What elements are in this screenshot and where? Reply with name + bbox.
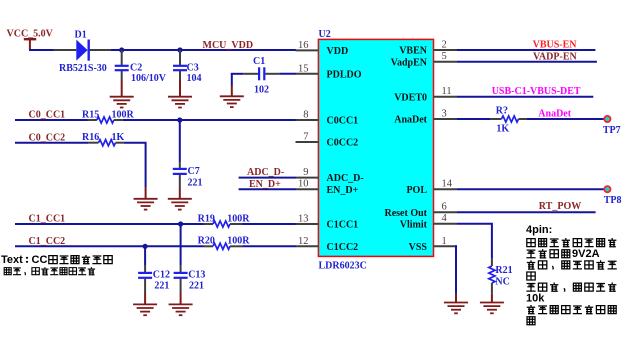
- svg-text:MCU_VDD: MCU_VDD: [203, 40, 254, 51]
- svg-text:C1_CC1: C1_CC1: [29, 214, 66, 225]
- U2 pin 2 VBEN: [399, 40, 457, 57]
- svg-text:Vlimit: Vlimit: [400, 219, 428, 230]
- svg-text:R21: R21: [495, 265, 512, 276]
- svg-text:VDD: VDD: [327, 46, 349, 57]
- U2 pin 6 Reset Out: [385, 202, 458, 219]
- svg-text:100R: 100R: [227, 213, 250, 224]
- wire C0_CC2: [15, 142, 88, 144]
- wire C1 left: [231, 73, 244, 75]
- svg-text:C2: C2: [130, 63, 142, 74]
- U2 pin 16 VDD: [296, 40, 349, 57]
- wire C1_CC2: [15, 245, 204, 247]
- svg-text:EN_D+: EN_D+: [327, 185, 359, 196]
- svg-text:RT_POW: RT_POW: [539, 201, 581, 212]
- U2 pin 1 VSS: [409, 236, 457, 253]
- svg-text:R19: R19: [198, 213, 215, 224]
- U2 pin 9 ADC_D-: [296, 167, 364, 184]
- svg-text:LDR6023C: LDR6023C: [319, 261, 367, 272]
- capacitor C7 221: [173, 120, 203, 199]
- svg-text:Reset Out: Reset Out: [385, 208, 428, 219]
- wire R15 to pin 8: [123, 119, 296, 121]
- svg-text:CC: CC: [32, 254, 48, 266]
- ground under C13: [169, 304, 193, 315]
- svg-text:C0_CC2: C0_CC2: [29, 132, 66, 143]
- test point TP8: [604, 186, 622, 206]
- svg-text:2: 2: [442, 40, 447, 51]
- wire C1 to pin 15: [279, 73, 296, 75]
- svg-text:VadpEN: VadpEN: [391, 57, 428, 68]
- svg-text:C12: C12: [153, 269, 170, 280]
- svg-text:USB-C1-VBUS-DET: USB-C1-VBUS-DET: [492, 86, 581, 97]
- svg-text:C3: C3: [187, 63, 199, 74]
- svg-text:R16: R16: [82, 132, 99, 143]
- svg-text:C1_CC2: C1_CC2: [29, 236, 66, 247]
- svg-text:R15: R15: [82, 109, 99, 120]
- op-amp / IC U2 LDR6023C body: [318, 29, 433, 272]
- svg-text:R20: R20: [198, 236, 215, 247]
- svg-text:15: 15: [298, 63, 309, 74]
- svg-text:221: 221: [188, 177, 203, 188]
- U2 pin 5 VadpEN: [391, 51, 457, 68]
- junction at C7: [177, 117, 182, 122]
- svg-text:13: 13: [298, 214, 309, 225]
- resistor R19 100R: [198, 213, 251, 227]
- ground under R16 riser: [134, 199, 158, 210]
- svg-text:221: 221: [154, 281, 169, 292]
- U2 pin 14 POL: [406, 179, 457, 196]
- text note left line 2: [4, 267, 95, 275]
- svg-text:8: 8: [303, 110, 308, 121]
- text note left: Text: CC series resistor note line 1: [1, 254, 112, 266]
- svg-text:C0CC1: C0CC1: [327, 116, 359, 127]
- svg-text:TP8: TP8: [604, 195, 622, 206]
- svg-text:NC: NC: [495, 277, 509, 288]
- wire C0_CC1: [15, 119, 88, 121]
- svg-text:TP7: TP7: [603, 125, 621, 136]
- svg-text:D1: D1: [75, 29, 87, 40]
- capacitor C2 106/10V: [115, 50, 167, 97]
- svg-text:4: 4: [442, 213, 448, 224]
- wire R20 to pin 12: [243, 245, 297, 247]
- ground under C7: [168, 199, 192, 210]
- svg-text:C7: C7: [188, 166, 200, 177]
- svg-text:16: 16: [298, 40, 309, 51]
- svg-text:100R: 100R: [227, 236, 250, 247]
- wire VCC to D1 anode: [29, 49, 54, 51]
- ground under C3: [168, 97, 192, 108]
- svg-text:AnaDet: AnaDet: [394, 115, 427, 126]
- svg-text:EN_D+: EN_D+: [249, 179, 281, 190]
- svg-text:102: 102: [254, 84, 269, 95]
- svg-text:ADC_D-: ADC_D-: [327, 173, 364, 184]
- U2 pin 12 C1CC2: [296, 236, 359, 253]
- svg-text:PDLDO: PDLDO: [327, 69, 362, 80]
- wire VSS pin 1 to ground: [456, 246, 457, 293]
- U2 pin 8 C0CC1: [296, 110, 359, 127]
- svg-text:14: 14: [442, 179, 453, 190]
- svg-text:U2: U2: [319, 29, 331, 40]
- svg-text:POL: POL: [406, 185, 427, 196]
- svg-text:C0_CC1: C0_CC1: [29, 110, 66, 121]
- svg-text:3: 3: [442, 109, 447, 120]
- svg-text:R?: R?: [496, 106, 508, 117]
- ground under VSS: [444, 303, 468, 314]
- wire Vlimit pin 4 to R21: [457, 224, 492, 259]
- capacitor C13 221: [174, 224, 206, 304]
- U2 pin 15 PDLDO: [296, 63, 362, 80]
- svg-text:C1CC1: C1CC1: [327, 220, 359, 231]
- svg-text:AnaDet: AnaDet: [538, 108, 571, 119]
- svg-text:4pin:: 4pin:: [526, 224, 552, 236]
- wire ADC_D- to pin 9: [239, 177, 296, 179]
- wire C1_CC1: [15, 223, 204, 225]
- svg-text:5: 5: [442, 51, 447, 62]
- svg-text:10: 10: [298, 179, 309, 190]
- text note right: 4pin power-limit note: [526, 224, 617, 325]
- svg-text:VADP-EN: VADP-EN: [533, 51, 577, 62]
- U2 pin 10 EN_D+: [296, 179, 359, 196]
- svg-text:9: 9: [303, 167, 308, 178]
- resistor R21 NC: [489, 259, 513, 294]
- junction at C3: [177, 47, 182, 52]
- svg-text:VBEN: VBEN: [399, 46, 428, 57]
- wire USB-C1-VBUS-DET: [457, 96, 593, 98]
- svg-text:12: 12: [298, 236, 309, 247]
- svg-text:Text: Text: [1, 254, 23, 266]
- wire R? to TP7: [527, 118, 605, 120]
- ground left of C1: [220, 96, 244, 107]
- wire AnaDet pin3 to R?: [457, 118, 491, 120]
- wire POL pin14 to TP8: [457, 188, 604, 190]
- wire R19 to pin 13: [243, 223, 297, 225]
- U2 pin 7 C0CC2: [296, 132, 359, 149]
- resistor R16 1K: [82, 132, 125, 146]
- capacitor C3 104: [173, 50, 202, 97]
- svg-text:C1CC2: C1CC2: [327, 242, 359, 253]
- svg-text:9V2A: 9V2A: [572, 248, 600, 260]
- svg-text:11: 11: [442, 86, 452, 97]
- svg-text:ADC_D-: ADC_D-: [247, 167, 284, 178]
- svg-text:1: 1: [442, 236, 447, 247]
- junction at C2: [119, 47, 124, 52]
- junction at C13: [178, 221, 183, 226]
- power port VCC_5.0V: [7, 28, 54, 50]
- diode D1 RB521S-30: [54, 29, 111, 74]
- test point TP7: [603, 116, 621, 136]
- wire EN_D+ to pin 10: [239, 188, 296, 190]
- resistor R15 100R: [82, 109, 135, 123]
- svg-text:106/10V: 106/10V: [131, 73, 167, 84]
- svg-text:10k: 10k: [526, 293, 545, 305]
- wire MCU_VDD rail to pin 16: [111, 49, 296, 51]
- svg-text:7: 7: [303, 132, 308, 143]
- ground under R21: [480, 303, 504, 314]
- wire VADP-EN: [457, 61, 597, 63]
- U2 pin 11 VDET0: [394, 86, 457, 103]
- U2 pin 4 Vlimit: [400, 213, 457, 230]
- resistor R? 1K: [491, 106, 527, 135]
- wire RT_POW pin 6: [457, 211, 596, 213]
- svg-text:VSS: VSS: [409, 242, 428, 253]
- svg-text:VDET0: VDET0: [394, 92, 427, 103]
- svg-text:C1: C1: [253, 56, 265, 67]
- ground under C12: [133, 304, 157, 315]
- wire ground riser to C1: [231, 74, 233, 86]
- svg-text:VCC_5.0V: VCC_5.0V: [7, 28, 54, 39]
- svg-text:1K: 1K: [112, 132, 125, 143]
- svg-text:C13: C13: [188, 269, 205, 280]
- U2 pin 3 AnaDet: [394, 109, 457, 126]
- resistor R20 100R: [198, 236, 251, 250]
- svg-text:1K: 1K: [496, 124, 509, 135]
- svg-text:221: 221: [189, 281, 204, 292]
- wire VBUS-EN: [457, 49, 595, 51]
- capacitor C12 221: [138, 246, 170, 304]
- wire R16 to ground riser: [124, 143, 146, 187]
- svg-text:RB521S-30: RB521S-30: [59, 63, 107, 74]
- svg-text:104: 104: [187, 73, 202, 84]
- ground under C2: [110, 97, 134, 108]
- svg-text:VBUS-EN: VBUS-EN: [533, 40, 578, 51]
- svg-text:100R: 100R: [112, 109, 135, 120]
- junction at C12: [143, 244, 148, 249]
- capacitor C1 102: [243, 56, 279, 95]
- U2 pin 13 C1CC1: [296, 214, 359, 231]
- svg-text:6: 6: [442, 202, 447, 213]
- svg-text:C0CC2: C0CC2: [327, 138, 359, 149]
